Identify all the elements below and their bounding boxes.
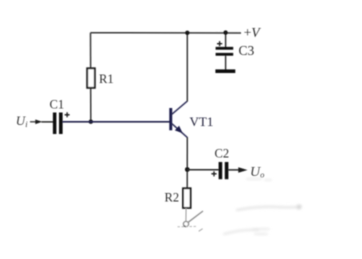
wire emitter vertical (186, 137, 188, 188)
transistor VT1 (169, 101, 187, 137)
label C3 plus (217, 41, 222, 46)
resistor R1 (87, 68, 95, 88)
svg-text:R2: R2 (165, 191, 180, 205)
label C1 plus (65, 112, 70, 117)
svg-text:R1: R1 (99, 72, 114, 86)
node C3 rail junction (223, 30, 227, 34)
wire top supply rail (90, 32, 241, 34)
capacitor C3 (215, 33, 235, 74)
svg-text:+V: +V (244, 25, 262, 40)
capacitor C2 (219, 162, 223, 179)
wire output arrow (228, 169, 239, 171)
svg-text:C1: C1 (50, 97, 65, 111)
node emitter junction (185, 167, 190, 172)
wire R2 bottom lead (185, 208, 187, 221)
node base junction (89, 120, 93, 124)
wire base wire C1 to transistor (63, 121, 170, 123)
wire left vertical from rail to base node (90, 33, 92, 122)
capacitor C1 (53, 113, 57, 135)
wire input arrow (30, 121, 36, 123)
svg-text:C2: C2 (215, 147, 230, 161)
label C2 plus (211, 171, 216, 176)
ground sketch below R2 (178, 211, 204, 231)
node collector rail junction (185, 31, 189, 35)
wire collector vertical (186, 33, 188, 102)
resistor R2 (183, 188, 191, 208)
svg-text:C3: C3 (239, 43, 255, 58)
svg-text:VT1: VT1 (190, 114, 214, 129)
wire emitter to C2 (187, 169, 218, 171)
faint smudges bottom right (224, 179, 302, 234)
